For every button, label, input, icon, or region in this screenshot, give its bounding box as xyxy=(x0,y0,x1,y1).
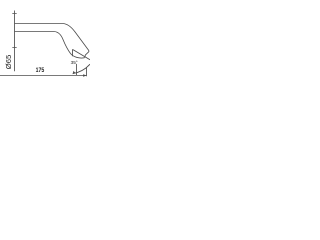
svg-text:175: 175 xyxy=(36,68,45,74)
svg-text:35°: 35° xyxy=(71,60,78,65)
svg-text:Ø65: Ø65 xyxy=(4,55,13,70)
